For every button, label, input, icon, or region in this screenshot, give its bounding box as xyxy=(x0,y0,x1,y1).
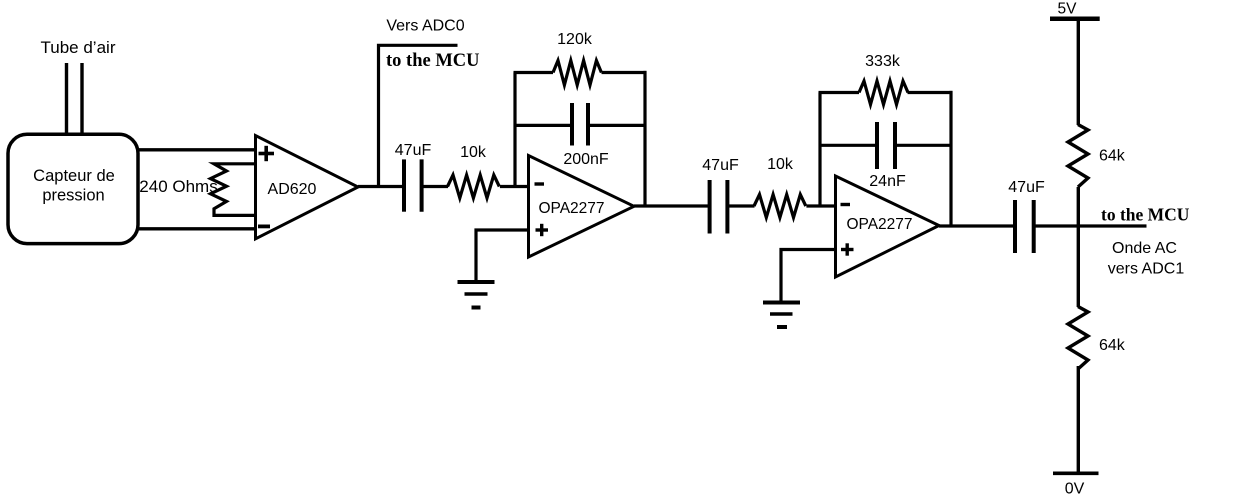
resistor 240 Ohms (vertical zigzag across AD620 inputs) xyxy=(211,164,255,216)
capacitor C3 47uF xyxy=(710,180,728,234)
wire: 24nF branch left xyxy=(820,144,877,147)
capacitor C5 47uF xyxy=(1015,200,1034,253)
pressure sensor body xyxy=(8,134,138,243)
U3 + input sign xyxy=(841,243,854,255)
wire: 200nF branch left xyxy=(515,124,572,127)
svg-text:240 Ohms: 240 Ohms xyxy=(139,177,217,196)
svg-text:333k: 333k xyxy=(865,53,901,70)
op-amp U2 OPA2277 xyxy=(529,156,635,258)
resistor R2 10k xyxy=(448,175,500,198)
op-amp U3 OPA2277 xyxy=(836,176,940,277)
U2 + input sign xyxy=(536,224,549,236)
wire: sensor to AD620 + input xyxy=(138,148,256,151)
U3 - input sign xyxy=(841,203,851,206)
svg-text:47uF: 47uF xyxy=(702,157,739,174)
ground symbol #1 xyxy=(458,282,495,308)
wire: rail bottom segment xyxy=(1077,366,1080,473)
feedback1 left riser xyxy=(513,73,516,187)
svg-text:47uF: 47uF xyxy=(395,142,432,159)
wire: U2 output to C3 xyxy=(634,204,710,207)
resistor R6 64k xyxy=(1068,125,1088,188)
svg-text:to the MCU: to the MCU xyxy=(1101,205,1190,225)
svg-text:10k: 10k xyxy=(767,156,794,173)
svg-text:120k: 120k xyxy=(557,31,593,48)
feedback1 right riser xyxy=(643,71,646,206)
resistor R3 120k xyxy=(553,61,601,86)
svg-text:47uF: 47uF xyxy=(1008,179,1045,196)
wire: R4 to OPA2277 #2 - input (junction with feedback2) xyxy=(806,204,836,207)
svg-text:Tube d’air: Tube d’air xyxy=(41,38,116,57)
svg-text:OPA2277: OPA2277 xyxy=(538,200,604,217)
wire: 5V rail top segment xyxy=(1077,19,1080,125)
resistor R7 64k xyxy=(1068,307,1088,370)
wire: 200nF branch right xyxy=(588,124,645,127)
wire: output node up to ADC0 (L shape) xyxy=(379,45,458,186)
svg-text:5V: 5V xyxy=(1058,1,1078,18)
U2 - input sign xyxy=(535,182,545,185)
svg-text:10k: 10k xyxy=(460,144,487,161)
feedback2 top wire right stub xyxy=(908,91,953,94)
wire: U2 + input to ground xyxy=(476,230,529,282)
label: Capteur de pression xyxy=(33,167,115,205)
wire: U3 + input to ground xyxy=(781,250,836,303)
resistor R5 333k xyxy=(859,81,908,105)
wire: C3 to R4 xyxy=(727,204,754,207)
feedback2 top wire left stub xyxy=(819,91,860,94)
air tube (two parallel lines) xyxy=(67,63,83,135)
wire: AD620 output to C1 xyxy=(358,185,404,188)
svg-text:24nF: 24nF xyxy=(869,173,906,190)
capacitor C1 47uF xyxy=(404,159,422,211)
svg-text:OPA2277: OPA2277 xyxy=(846,216,912,233)
wire: 24nF branch right xyxy=(895,144,951,147)
feedback1 top wire right stub xyxy=(602,71,647,74)
wire: rail middle segment (through node) xyxy=(1077,187,1080,307)
wire: sensor to AD620 - input xyxy=(138,227,256,230)
svg-text:Onde AC: Onde AC xyxy=(1112,240,1177,257)
svg-text:64k: 64k xyxy=(1099,337,1126,354)
svg-text:64k: 64k xyxy=(1099,148,1126,165)
feedback1 top wire left stub xyxy=(514,71,554,74)
feedback2 right riser xyxy=(949,91,952,226)
0V (ground) bar xyxy=(1053,471,1099,475)
svg-text:0V: 0V xyxy=(1065,481,1085,495)
capacitor C4 24nF xyxy=(877,122,895,169)
wire: C1 to R2 xyxy=(422,185,448,188)
wire: U3 output to C5 xyxy=(939,224,1016,227)
feedback2 left riser xyxy=(818,93,821,207)
op-amp U1 AD620 xyxy=(256,136,359,239)
svg-text:Capteur de: Capteur de xyxy=(33,167,115,185)
AD620 - input sign xyxy=(258,224,270,228)
5V supply bar xyxy=(1050,17,1100,22)
ground symbol #2 xyxy=(763,303,800,328)
wire: R2 to OPA2277 #1 - input (junction with feedback) xyxy=(500,185,529,188)
svg-text:pression: pression xyxy=(42,187,104,205)
svg-text:200nF: 200nF xyxy=(563,151,609,168)
capacitor C2 200nF xyxy=(572,103,588,146)
wire: C5 to divider node xyxy=(1034,224,1147,227)
resistor R4 10k xyxy=(754,195,806,218)
svg-text:AD620: AD620 xyxy=(268,181,317,198)
AD620 + input sign xyxy=(259,146,275,161)
svg-text:vers ADC1: vers ADC1 xyxy=(1108,261,1185,278)
svg-text:to the MCU: to the MCU xyxy=(386,51,480,71)
svg-text:Vers ADC0: Vers ADC0 xyxy=(386,18,464,35)
